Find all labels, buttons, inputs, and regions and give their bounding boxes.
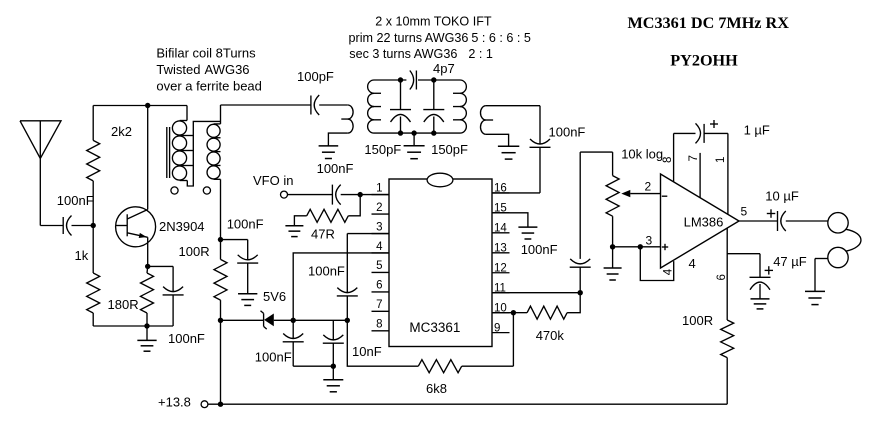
svg-text:100nF: 100nF xyxy=(317,161,354,176)
svg-text:100R: 100R xyxy=(682,313,713,328)
svg-text:MC3361 DC 7MHz RX: MC3361 DC 7MHz RX xyxy=(628,14,790,32)
svg-text:7: 7 xyxy=(376,299,382,311)
svg-text:10k log: 10k log xyxy=(621,147,663,162)
svg-text:470k: 470k xyxy=(536,328,565,343)
svg-text:+13.8: +13.8 xyxy=(158,395,191,410)
svg-text:100R: 100R xyxy=(179,244,210,259)
svg-text:10nF: 10nF xyxy=(352,344,382,359)
svg-text:6k8: 6k8 xyxy=(426,381,447,396)
svg-text:8: 8 xyxy=(662,157,674,163)
svg-text:over a ferrite bead: over a ferrite bead xyxy=(156,79,262,94)
svg-text:MC3361: MC3361 xyxy=(409,320,460,335)
svg-text:4: 4 xyxy=(689,256,696,271)
svg-text:12: 12 xyxy=(494,263,507,275)
svg-text:100pF: 100pF xyxy=(297,69,334,84)
svg-text:100nF: 100nF xyxy=(549,125,586,140)
svg-text:prim 22 turns AWG36: prim 22 turns AWG36 xyxy=(349,31,469,45)
svg-text:6: 6 xyxy=(716,274,728,280)
svg-text:100nF: 100nF xyxy=(168,331,205,346)
svg-text:100nF: 100nF xyxy=(227,217,264,232)
svg-text:4: 4 xyxy=(663,268,675,275)
svg-text:5: 5 xyxy=(376,260,382,272)
svg-text:PY2OHH: PY2OHH xyxy=(670,52,738,70)
svg-text:Twisted: Twisted xyxy=(156,62,200,77)
svg-text:AWG36: AWG36 xyxy=(205,62,250,77)
svg-text:6: 6 xyxy=(376,280,382,292)
svg-text:10 µF: 10 µF xyxy=(765,189,799,204)
svg-text:4: 4 xyxy=(376,241,383,253)
svg-text:2: 2 xyxy=(376,202,382,214)
svg-text:100nF: 100nF xyxy=(57,193,94,208)
svg-text:2 x 10mm TOKO IFT: 2 x 10mm TOKO IFT xyxy=(375,14,492,28)
svg-text:9: 9 xyxy=(494,322,500,334)
svg-text:47R: 47R xyxy=(311,227,335,242)
svg-text:LM386: LM386 xyxy=(684,215,724,230)
svg-text:3: 3 xyxy=(376,221,382,233)
svg-text:100nF: 100nF xyxy=(308,264,345,279)
svg-text:4p7: 4p7 xyxy=(433,61,455,76)
svg-text:8: 8 xyxy=(376,319,382,331)
svg-text:13: 13 xyxy=(494,243,507,255)
svg-text:1 µF: 1 µF xyxy=(744,122,770,137)
svg-text:2N3904: 2N3904 xyxy=(159,219,205,234)
svg-text:5 : 6 : 6 : 5: 5 : 6 : 6 : 5 xyxy=(471,31,531,45)
svg-text:3: 3 xyxy=(646,234,653,248)
svg-text:47 µF: 47 µF xyxy=(773,254,807,269)
svg-text:14: 14 xyxy=(494,223,507,235)
svg-text:150pF: 150pF xyxy=(364,142,401,157)
svg-text:2: 2 xyxy=(645,180,652,194)
svg-text:5V6: 5V6 xyxy=(263,289,286,304)
svg-text:1k: 1k xyxy=(75,248,89,263)
svg-text:sec 3 turns AWG36: sec 3 turns AWG36 xyxy=(349,47,457,61)
svg-text:150pF: 150pF xyxy=(431,142,468,157)
svg-text:100nF: 100nF xyxy=(255,350,292,365)
svg-text:100nF: 100nF xyxy=(521,242,558,257)
svg-text:Bifilar coil 8Turns: Bifilar coil 8Turns xyxy=(156,46,256,61)
svg-text:VFO in: VFO in xyxy=(253,173,293,188)
svg-text:16: 16 xyxy=(494,183,507,195)
svg-text:2 : 1: 2 : 1 xyxy=(468,47,493,61)
svg-text:2k2: 2k2 xyxy=(111,124,132,139)
svg-text:1: 1 xyxy=(376,182,382,194)
svg-text:7: 7 xyxy=(688,155,700,161)
svg-text:5: 5 xyxy=(741,205,748,219)
svg-text:1: 1 xyxy=(715,157,727,163)
svg-text:180R: 180R xyxy=(108,297,139,312)
